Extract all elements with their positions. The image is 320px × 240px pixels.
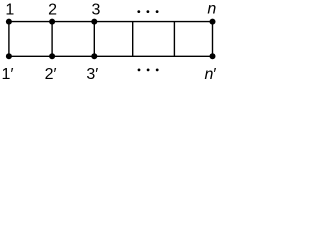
node 3 <box>91 19 97 25</box>
svg-text:3′: 3′ <box>86 66 98 82</box>
svg-text:1′: 1′ <box>2 66 14 82</box>
wire: intermediate rung (unlabeled) <box>132 22 134 57</box>
svg-text:2: 2 <box>48 1 57 18</box>
node 2 <box>49 19 55 25</box>
node 1' <box>6 53 12 59</box>
wire: top rail from node 1 to node n <box>9 21 213 23</box>
ellipsis dots (bottom) <box>138 69 141 72</box>
svg-text:1: 1 <box>5 1 14 18</box>
svg-text:2′: 2′ <box>45 66 57 82</box>
node 1 <box>6 19 12 25</box>
wire: bottom rail from node 1' to node n' <box>9 55 213 57</box>
svg-text:n: n <box>207 0 216 17</box>
node n' <box>210 53 216 59</box>
node 3' <box>91 53 97 59</box>
node 2' <box>49 53 55 59</box>
wire: rung 2-2' <box>51 22 53 57</box>
wire: rung 1-1' <box>8 22 10 57</box>
ladder graph diagram P2 x Pn <box>0 0 223 82</box>
svg-text:n′: n′ <box>204 66 216 82</box>
svg-text:3: 3 <box>91 1 100 18</box>
ellipsis dots (top) <box>137 10 140 13</box>
wire: rung n-n' <box>212 22 214 57</box>
node n <box>210 19 216 25</box>
wire: intermediate rung (unlabeled) <box>173 22 175 57</box>
wire: rung 3-3' <box>93 22 95 57</box>
